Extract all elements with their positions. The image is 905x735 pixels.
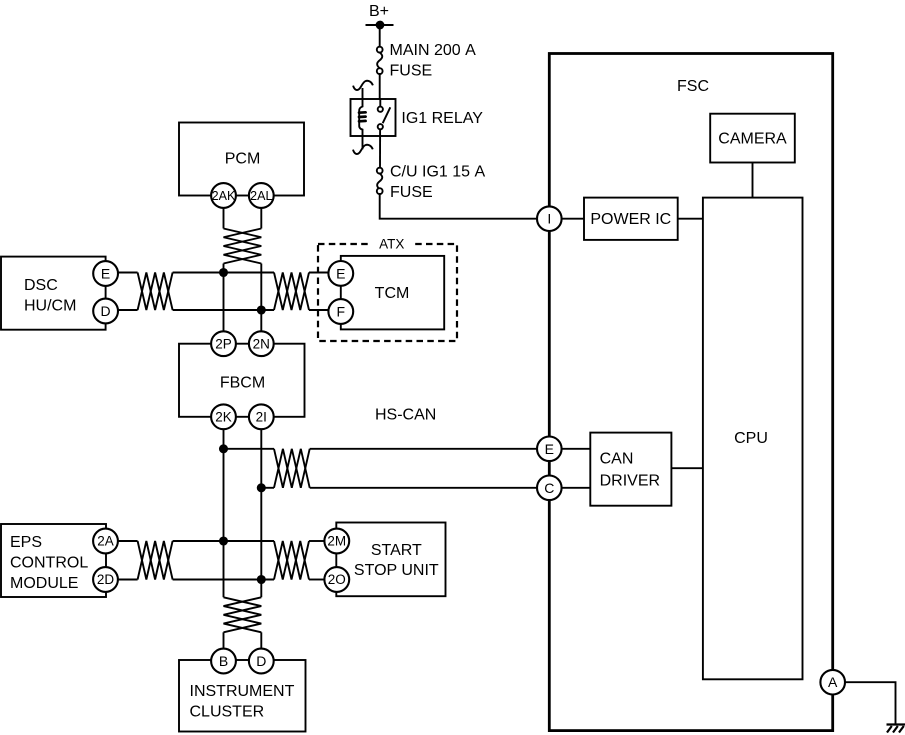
svg-text:A: A	[828, 674, 838, 690]
svg-text:C/U IG1 15 A: C/U IG1 15 A	[390, 163, 485, 180]
svg-text:DSC: DSC	[24, 277, 58, 294]
wire CAN-H bus	[173, 272, 274, 274]
wire twist to TCM E	[309, 272, 329, 274]
wire relay K1 to fuse F2	[379, 129, 381, 167]
fuse F1 MAIN 200 A	[377, 47, 383, 74]
svg-text:DRIVER: DRIVER	[600, 472, 660, 489]
START STOP UNIT box	[336, 523, 445, 597]
svg-text:F: F	[337, 304, 346, 320]
svg-text:HS-CAN: HS-CAN	[375, 407, 436, 424]
svg-text:CONTROL: CONTROL	[10, 555, 88, 572]
svg-text:IG1 RELAY: IG1 RELAY	[401, 110, 483, 127]
wire POWER IC to CPU	[678, 218, 703, 220]
DSC HU/CM box	[1, 257, 106, 330]
svg-text:START: START	[371, 542, 422, 559]
wire twist to 2M	[309, 540, 325, 542]
PCM box	[179, 123, 304, 196]
terminal A (FSC)	[820, 670, 845, 695]
twisted pair PCM to bus	[224, 229, 262, 264]
svg-text:STOP UNIT: STOP UNIT	[354, 562, 439, 579]
terminal 2M (start stop unit)	[324, 529, 349, 554]
wire camera to CPU	[752, 163, 754, 198]
node EPS row CAN-L junction (dot)	[258, 576, 265, 583]
INSTRUMENT CLUSTER box	[179, 660, 306, 732]
svg-text:2N: 2N	[253, 336, 270, 351]
wire terminal C to CAN DRIVER	[562, 487, 591, 489]
wire PCM 2AL down	[260, 208, 262, 229]
svg-text:B+: B+	[369, 3, 389, 20]
wire-break squiggle above relay coil	[353, 81, 373, 90]
wire terminal E to CAN DRIVER	[562, 448, 591, 450]
wire CAN DRIVER to CPU	[671, 467, 703, 469]
svg-text:2K: 2K	[215, 410, 232, 425]
terminal 2I (FBCM)	[249, 404, 274, 429]
svg-text:EPS: EPS	[10, 534, 42, 551]
wire B+ to main fuse	[379, 25, 381, 46]
coil of relay K1	[359, 88, 362, 149]
svg-text:2AK: 2AK	[212, 189, 236, 203]
svg-text:2P: 2P	[215, 336, 232, 351]
FBCM box	[179, 344, 305, 417]
wire twist to terminal D	[260, 632, 262, 648]
wire EPS row CAN-H	[173, 540, 274, 542]
wire twist to terminal B	[223, 632, 225, 648]
terminal E (TCM)	[328, 261, 353, 286]
svg-text:D: D	[256, 653, 266, 669]
svg-text:2A: 2A	[97, 534, 114, 549]
terminal 2AK (PCM)	[211, 183, 236, 208]
terminal 2N (FBCM)	[249, 331, 274, 356]
wire CAN-L bus	[173, 309, 274, 311]
svg-text:INSTRUMENT: INSTRUMENT	[190, 683, 295, 700]
svg-text:I: I	[547, 211, 551, 227]
terminal 2K (FBCM)	[211, 404, 236, 429]
wire FBCM 2I down through junctions to twist	[260, 429, 262, 597]
ground	[887, 725, 905, 733]
svg-text:CAN: CAN	[600, 450, 634, 467]
wire EPS row CAN-L	[173, 579, 274, 581]
node B+	[366, 22, 394, 29]
svg-text:E: E	[101, 266, 110, 282]
svg-text:ATX: ATX	[379, 237, 404, 252]
terminal 2A (EPS)	[93, 529, 118, 554]
terminal F (TCM)	[328, 299, 353, 324]
svg-text:2AL: 2AL	[250, 189, 272, 203]
svg-text:FSC: FSC	[677, 78, 709, 95]
svg-text:FUSE: FUSE	[390, 63, 433, 80]
svg-text:MAIN 200 A: MAIN 200 A	[390, 42, 477, 59]
svg-text:B: B	[219, 653, 228, 669]
terminal C (FSC)	[537, 476, 562, 501]
CAMERA box	[710, 114, 795, 163]
terminal E (FSC)	[537, 437, 562, 462]
wire twist to CAN-L junction down to FBCM 2N	[260, 264, 262, 332]
wire-break squiggle below relay coil	[353, 145, 373, 154]
wire DSC E to twist	[118, 272, 138, 274]
svg-text:TCM: TCM	[375, 285, 410, 302]
svg-text:D: D	[101, 303, 111, 319]
terminal 2AL (PCM)	[249, 183, 274, 208]
wire twist to terminal E	[310, 448, 537, 450]
svg-text:MODULE: MODULE	[10, 575, 78, 592]
svg-text:C: C	[544, 480, 554, 496]
terminal D (instrument cluster)	[249, 649, 274, 674]
terminal B (instrument cluster)	[211, 649, 236, 674]
fuse F2 C/U IG1 15 A	[377, 168, 383, 194]
wire DSC D to twist	[118, 309, 138, 311]
terminal 2D (EPS)	[93, 567, 118, 592]
twisted pair EPS to bus	[138, 541, 173, 580]
svg-text:FUSE: FUSE	[390, 184, 433, 201]
svg-text:CLUSTER: CLUSTER	[190, 704, 265, 721]
terminal 2O (start stop unit)	[324, 567, 349, 592]
twisted pair bus to start stop unit	[274, 541, 309, 580]
twisted pair bus to TCM	[274, 273, 309, 311]
wire PCM 2AK down	[223, 208, 225, 229]
wire fuse F1 to relay K1	[379, 74, 381, 99]
wire EPS 2A to twist	[118, 540, 138, 542]
wire terminal A to ground	[845, 682, 896, 723]
node CAN-L branch FSC (dot)	[258, 484, 265, 491]
terminal 2P (FBCM)	[211, 331, 236, 356]
wire EPS 2D to twist	[118, 579, 138, 581]
node CAN-H branch FSC (dot)	[220, 445, 227, 452]
EPS CONTROL MODULE box	[1, 524, 106, 597]
twisted pair to FSC	[274, 449, 310, 488]
wire CAN-L to terminal C	[261, 487, 274, 489]
svg-text:2I: 2I	[256, 410, 267, 425]
twisted pair to instrument cluster	[224, 597, 262, 632]
POWER IC box	[584, 198, 678, 240]
wire twist to TCM F	[309, 309, 329, 311]
TCM box	[341, 256, 444, 330]
CPU box	[703, 198, 803, 680]
ATX dashed box	[318, 244, 457, 341]
wire fuse F2 to terminal I	[380, 194, 537, 219]
twisted pair DSC to bus	[138, 273, 173, 311]
terminal E (DSC)	[93, 261, 118, 286]
svg-text:2D: 2D	[97, 572, 115, 587]
svg-text:CAMERA: CAMERA	[718, 131, 787, 148]
FSC module box	[549, 54, 832, 731]
svg-text:POWER IC: POWER IC	[590, 211, 671, 228]
wire twist to 2O	[309, 579, 325, 581]
terminal I	[537, 206, 562, 231]
switch contact of relay K1	[379, 99, 381, 107]
svg-text:PCM: PCM	[225, 150, 261, 167]
relay K1 IG1 RELAY	[351, 81, 396, 154]
svg-text:FBCM: FBCM	[220, 374, 265, 391]
wire twist to terminal C	[310, 487, 537, 489]
wire terminal I to POWER IC	[562, 218, 584, 220]
svg-text:E: E	[545, 441, 554, 457]
svg-text:CPU: CPU	[734, 430, 768, 447]
svg-text:2O: 2O	[328, 572, 346, 587]
CAN DRIVER box	[590, 433, 671, 506]
node CAN-H junction (dot)	[220, 269, 227, 276]
wire twist to CAN-H junction down to FBCM 2P	[223, 264, 225, 332]
node CAN-L junction (dot)	[258, 306, 265, 313]
wire FBCM 2K down through junctions to twist	[223, 429, 225, 597]
terminal D (DSC)	[93, 299, 118, 324]
svg-text:2M: 2M	[327, 534, 346, 549]
svg-text:E: E	[336, 265, 345, 281]
node EPS row CAN-H junction (dot)	[220, 537, 227, 544]
wire CAN-H to terminal E	[224, 448, 275, 450]
svg-text:HU/CM: HU/CM	[24, 298, 76, 315]
